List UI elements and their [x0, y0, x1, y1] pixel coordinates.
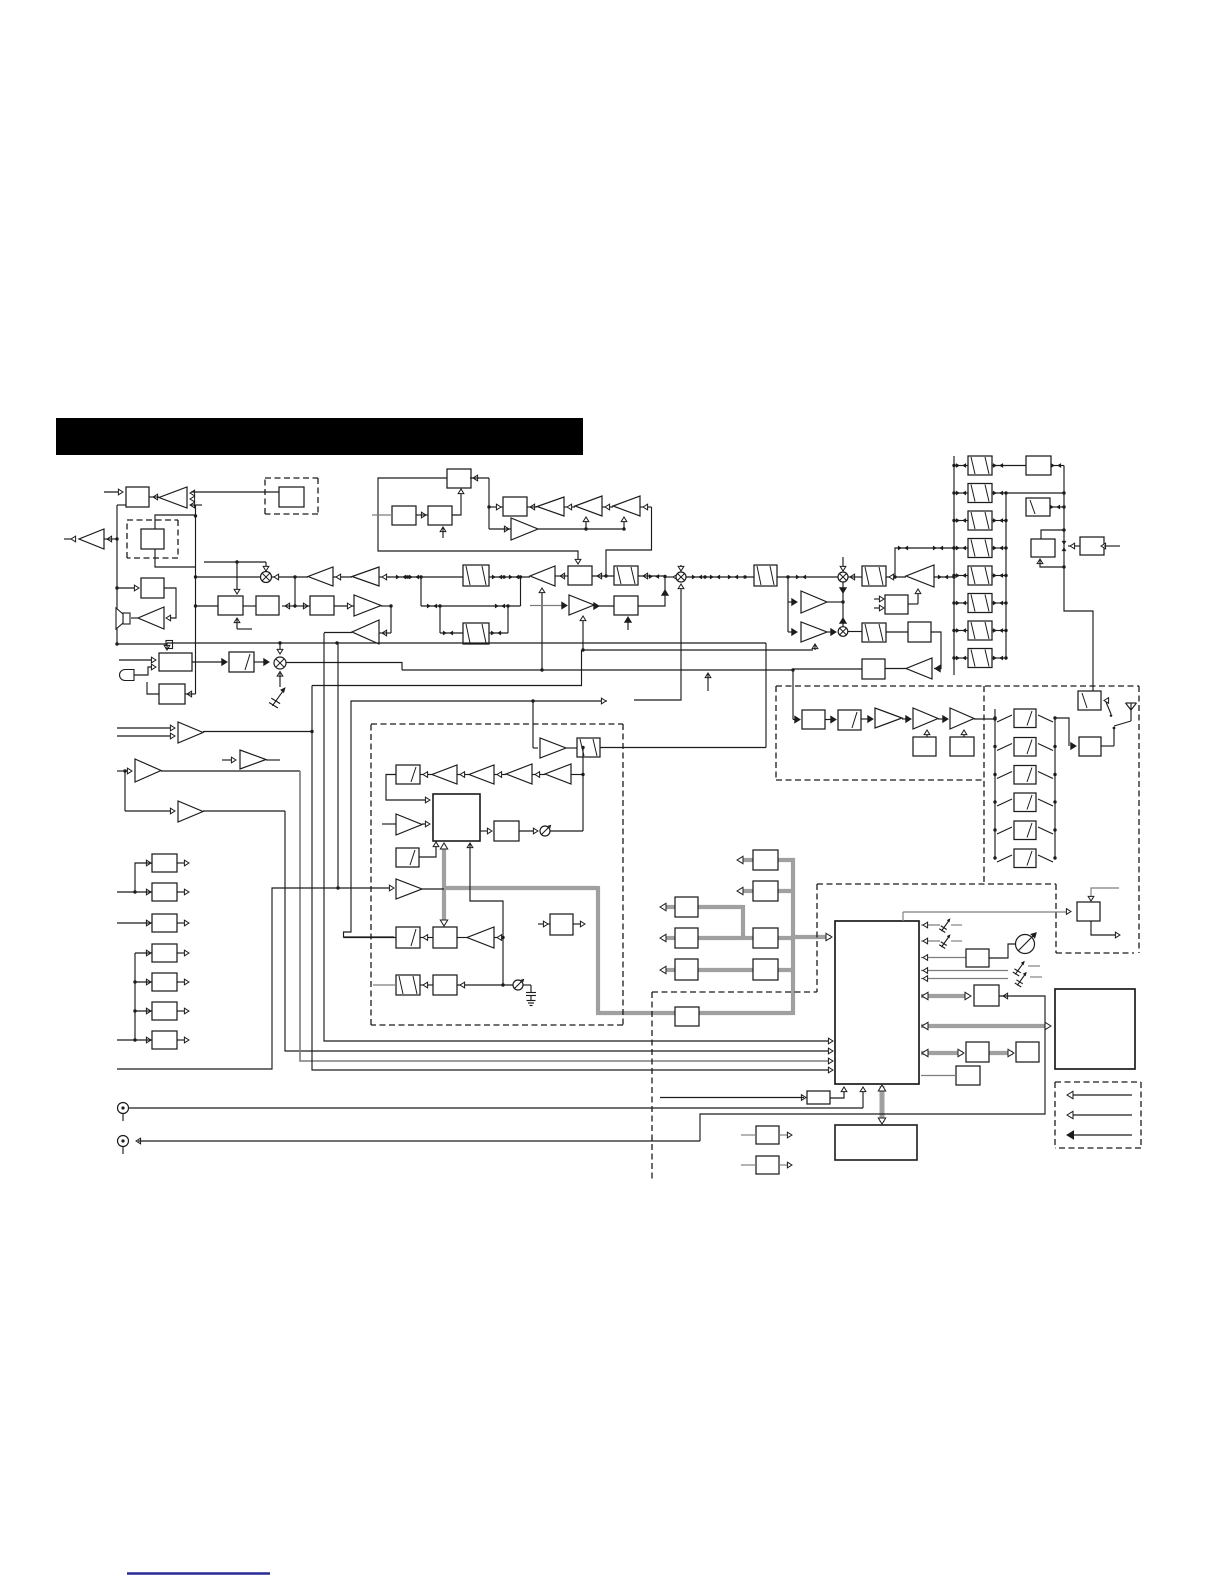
junction rail954 TR6: [952, 601, 955, 604]
junction y643 x337: [335, 641, 338, 644]
wire switch top jog: [1055, 718, 1069, 746]
arrow into SB1: [222, 659, 227, 665]
bus DSP D to E: [698, 936, 741, 940]
junction: [1004, 519, 1007, 522]
block limiter B1: [126, 487, 149, 507]
wire A15 in: [117, 770, 130, 772]
junction rail196 y516: [194, 514, 197, 517]
junction x542 y670: [540, 668, 543, 671]
filter FL12: [862, 623, 886, 642]
switch blade right SW6: [1038, 855, 1053, 862]
arrow A2 in: [107, 536, 112, 542]
junction: [1004, 656, 1007, 659]
wire input stub: [104, 491, 121, 493]
filter FL2: [463, 623, 489, 644]
wire A7 base: [379, 632, 391, 634]
rail1006 vertical: [1005, 493, 1007, 658]
amp A2 (left out): [79, 529, 104, 549]
arrow: [1067, 1131, 1074, 1139]
filter TR2: [968, 484, 992, 503]
amp A28 (right): [950, 708, 974, 729]
arrow: [580, 921, 585, 927]
wire A3 to speaker: [131, 617, 138, 619]
junction LB2: [133, 890, 136, 893]
arrow B10 out left: [560, 573, 565, 579]
block out LB3: [152, 914, 177, 932]
junction x895: [893, 575, 896, 578]
bus IC to key unit: [921, 1049, 964, 1056]
accessory line 2: [1069, 1114, 1132, 1116]
wire B36 in: [741, 1134, 756, 1136]
block out LB2: [152, 883, 177, 901]
arrow MIX5 top: [277, 649, 283, 654]
arrow into FL3 right: [643, 573, 648, 579]
mixer MIX5: [274, 657, 286, 669]
arrow into A9: [605, 504, 610, 510]
block B10: [568, 566, 592, 585]
arrow into MIX4: [831, 629, 836, 635]
arrow into J2: [136, 1138, 141, 1144]
bus DSP C to E: [698, 905, 753, 938]
wire FL11 to MIX3: [777, 576, 838, 578]
switch blade left SW3: [997, 772, 1012, 779]
block DSP B: [753, 881, 778, 901]
arrow: [1067, 1111, 1073, 1118]
PLL bottom control: [467, 843, 503, 985]
bus stub DSP D: [660, 934, 675, 941]
accessory line 1: [1069, 1094, 1132, 1096]
wire rail to TR7: [954, 630, 968, 632]
junction x665: [663, 575, 666, 578]
filter FL3: [614, 566, 638, 585]
arrow into B17: [460, 982, 465, 988]
arrow into B13 right: [187, 691, 192, 697]
arrow: [923, 938, 928, 944]
junction x583 y650: [581, 648, 584, 651]
block mic amp B12: [159, 653, 192, 671]
B29 top feed: [1091, 888, 1119, 901]
amp A5 (left): [352, 567, 379, 586]
amp A8 (left): [537, 497, 564, 516]
junction rail954 TR5: [952, 574, 955, 577]
bus stub DSP G right: [778, 968, 795, 972]
rail switch right: [1054, 718, 1056, 858]
amp chain A20 (left): [469, 765, 494, 784]
wire A30 out: [827, 601, 843, 603]
block IF B3: [218, 596, 243, 615]
wire MIX1 in right: [272, 576, 309, 578]
junction: [1062, 565, 1065, 568]
junction y577 x295: [293, 575, 296, 578]
wire into A11: [489, 528, 511, 530]
wire A18-FL4: [566, 747, 577, 749]
wire B4 link: [282, 605, 295, 607]
B29 out: [1091, 921, 1118, 935]
arrow into SB3: [1104, 698, 1109, 704]
ctl riser A10: [621, 517, 627, 529]
junction y562: [235, 560, 238, 563]
coupling pair TR6: [956, 601, 966, 606]
junction: [581, 773, 584, 776]
junction ctl1: [584, 527, 587, 530]
wire RSSI to IC (vertical x324): [324, 633, 831, 1041]
arrow: [535, 772, 540, 778]
junction x391: [389, 604, 392, 607]
junction x788: [786, 575, 789, 578]
dashed unit box D0a: [265, 478, 318, 514]
wire rail to TR1: [954, 465, 968, 467]
switch filter SW5: [1014, 821, 1036, 840]
arrow: [787, 1162, 792, 1168]
wire B7-B8: [416, 514, 428, 516]
amp chain A21 (left): [506, 764, 532, 784]
arrow: [497, 772, 502, 778]
switch filter SW4: [1014, 793, 1036, 812]
amp A25 (left): [467, 927, 494, 948]
block B26: [908, 622, 931, 642]
bus arrow top: [440, 843, 447, 849]
wire TR5 out: [992, 575, 1006, 577]
junction x606 y576: [604, 574, 607, 577]
wire A9-A10: [602, 506, 613, 508]
wire ant-sw drive: [903, 912, 1069, 921]
wire into B5: [295, 605, 310, 607]
amp A12 (right): [569, 595, 594, 615]
variable cap CV1: [1016, 932, 1037, 953]
junction y606 x295: [293, 604, 296, 607]
bus stub DSP E right: [778, 936, 795, 940]
capacitor C1 to ground: [523, 985, 536, 1006]
wire TR4 out: [992, 547, 1006, 549]
wire AF out 2 to IC (vertical x300): [161, 771, 831, 1061]
arrow LB2 out: [184, 889, 189, 895]
junction: [1004, 601, 1007, 604]
wire MIX1 out left: [196, 576, 260, 578]
junction: [506, 604, 509, 607]
wire xtal bottom: [155, 549, 196, 567]
filter FL11: [754, 565, 777, 586]
junction x954 y548: [952, 546, 955, 549]
filter FL7: [396, 927, 420, 948]
coupling pair: [409, 575, 419, 580]
arrow LB5 out: [184, 979, 189, 985]
ctl riser A9: [583, 517, 589, 529]
filter FL5: [396, 765, 420, 784]
wire A25 base: [494, 937, 503, 939]
wire A8-A9: [564, 506, 575, 508]
wire LO to MIX1: [204, 562, 266, 570]
junction rail-R SW6: [1053, 856, 1056, 859]
block drive B19: [913, 737, 936, 756]
switch filter SW1: [1014, 709, 1036, 728]
amp chain A22 (left): [545, 764, 571, 784]
amp A17 (right): [240, 750, 266, 769]
amp A18 (right, TX): [540, 738, 566, 758]
wire A14 in b: [117, 735, 172, 737]
block B24: [1080, 537, 1104, 555]
riser A31 control: [814, 645, 816, 650]
arrow into B10 top: [575, 559, 581, 564]
arrow into B6 bottom: [458, 489, 464, 494]
block B36: [756, 1126, 779, 1144]
junction LB7: [133, 1038, 136, 1041]
filter FL8: [396, 975, 420, 995]
wire A29 base: [934, 576, 954, 578]
arrow LB6 out: [184, 1008, 189, 1014]
junction: [1004, 491, 1007, 494]
junction ctl2: [622, 527, 625, 530]
junction x533 y701: [531, 699, 534, 702]
junction: [743, 575, 746, 578]
filter TR1: [968, 456, 992, 475]
wire FL5 to PLL: [386, 775, 428, 801]
arrow into A8: [567, 504, 572, 510]
junction: [1062, 528, 1065, 531]
arrow into MIX2: [673, 574, 678, 580]
junction rail-R SW1: [1053, 716, 1056, 719]
wire B37 out: [779, 1164, 790, 1166]
arrow into B6 right: [473, 475, 478, 481]
wire IC-B34: [921, 1075, 956, 1077]
wire filter2 drop left: [439, 606, 441, 633]
arrow into TX buffer box: [601, 698, 606, 704]
arrow into B21: [1071, 743, 1076, 749]
wire A21-A22: [532, 774, 545, 776]
amp A29 (left): [906, 565, 934, 587]
junction: [1062, 505, 1065, 508]
arrow LB4 out: [184, 950, 189, 956]
arrow into MIX1: [274, 574, 279, 580]
coupling pair: [492, 575, 502, 580]
wire B6 right: [470, 477, 489, 479]
block display unit U3: [1055, 989, 1135, 1069]
mixer MIX1: [261, 572, 272, 583]
bus DSP F to G: [698, 968, 753, 972]
block ant-sw drive B29: [1077, 902, 1100, 921]
wire into A12: [530, 605, 565, 607]
wire noise y670: [402, 669, 793, 671]
wire A26-A27: [902, 718, 910, 720]
filter FL4: [577, 738, 600, 757]
junction rail-L SW2: [993, 745, 996, 748]
antenna switch S1: [1101, 702, 1131, 746]
block out LB6: [152, 1002, 177, 1020]
B12 top arrow: [164, 643, 170, 650]
junction rail-L SW4: [993, 800, 996, 803]
wire filter2 row: [440, 632, 508, 634]
block out LB7: [152, 1031, 177, 1049]
wire rail to TR3: [954, 520, 968, 522]
stub: [1028, 965, 1040, 967]
wire LB4-7 feed: [117, 953, 152, 1040]
wire LB5 out: [177, 981, 187, 983]
switch filter SW3: [1014, 766, 1036, 785]
wire SB1 out: [254, 661, 268, 663]
arrow into A26: [868, 716, 873, 722]
block B14: [494, 821, 519, 841]
wire LB3 feed: [117, 922, 152, 924]
arrow into MIX5: [264, 659, 269, 665]
arrow B24 out: [1070, 543, 1075, 549]
filter TR5: [968, 566, 992, 585]
wire A20-A21: [494, 774, 506, 776]
wire FL3 right: [638, 575, 665, 577]
drop x788: [787, 577, 789, 632]
arrowpair: [993, 573, 1003, 578]
arrow into B9 right: [530, 504, 535, 510]
amp A32 (left): [906, 658, 932, 679]
trimmer line b: [921, 978, 1008, 980]
wire MIX5 out: [286, 663, 402, 671]
wire x651 feed: [606, 507, 652, 576]
arrow: [127, 768, 132, 774]
bus corner down: [596, 886, 600, 1013]
wire A4-A5: [333, 576, 352, 578]
stub FL8 left: [373, 984, 396, 986]
arrow up x665: [662, 590, 668, 595]
filter FL1: [463, 565, 489, 586]
wire B11 up to x665: [638, 577, 665, 606]
wire squelch y650: [583, 649, 813, 651]
wire B36 out: [779, 1134, 790, 1136]
wire discr to mod (vertical x338): [337, 643, 339, 888]
block B6: [447, 469, 471, 488]
arrow into MIX3: [850, 574, 855, 580]
trimmer T1: [939, 918, 950, 932]
bus stub DSP C: [660, 903, 675, 910]
wire B26 out: [931, 632, 941, 669]
amp A30 (right): [801, 591, 827, 613]
wire B9-A8: [527, 506, 537, 508]
wire drop x295: [294, 577, 296, 606]
block B37: [756, 1156, 779, 1174]
coupling pair TR8: [956, 656, 966, 661]
arrow: [460, 772, 465, 778]
junction: [438, 604, 441, 607]
arrow into B35: [801, 1095, 806, 1101]
bus IC bottom to audio box: [878, 1085, 885, 1124]
junction LB5: [133, 980, 136, 983]
wire A16 in: [125, 810, 172, 812]
wire into B9: [489, 506, 503, 508]
wire B17 right: [457, 984, 513, 986]
switch blade right SW2: [1038, 744, 1053, 751]
arrow into B3 top: [234, 589, 240, 594]
arrow into LB6: [146, 1008, 151, 1014]
block xtal (in dashed): [141, 529, 164, 549]
bus stub DSP B: [737, 887, 753, 894]
wire into B18: [793, 719, 795, 721]
block B25: [885, 595, 908, 614]
coupling pair TR1: [956, 463, 966, 468]
arrow A2 out: [71, 536, 76, 542]
wire AF out 1 to IC (vertical x312): [203, 686, 831, 1071]
switch blade right SW4: [1038, 799, 1053, 806]
junction: [581, 746, 584, 749]
arrow into FL10: [889, 574, 894, 580]
wire A17 in: [222, 759, 234, 761]
wire LB7 out: [177, 1039, 187, 1041]
dashed accessory box D7: [1055, 1082, 1141, 1148]
junction rail196 y606: [194, 604, 197, 607]
wire A27-A28: [938, 718, 947, 720]
wire A12-B11: [594, 605, 614, 607]
IC system control U2: [835, 921, 919, 1084]
wire A11 out: [538, 528, 624, 530]
wire MIX2 to FL11: [686, 576, 754, 578]
trimmer line a: [921, 970, 1008, 972]
bus stub DSP A right: [778, 858, 795, 862]
arrow into limiter: [118, 489, 123, 495]
junction x843 y602: [841, 600, 844, 603]
speaker SP1: [116, 608, 130, 629]
junction rail117 y644: [115, 642, 118, 645]
arrow LB3 out: [184, 920, 189, 926]
arrow into LB3: [146, 920, 151, 926]
junction rail954 TR4: [952, 546, 955, 549]
arrow: [879, 596, 884, 602]
block out LB1: [152, 854, 177, 872]
arrow into B11: [594, 603, 599, 609]
filter TR3: [968, 511, 992, 530]
switch blade right SW1: [1038, 715, 1053, 722]
arrow-up marker y670: [705, 673, 711, 691]
junction rail-L SW3: [993, 773, 996, 776]
block IF B4: [256, 596, 279, 615]
wire B25 out: [908, 603, 918, 605]
amp A11 (right): [511, 518, 538, 540]
arrow: [170, 725, 175, 731]
wire squelch gray y686: [312, 650, 582, 686]
block power B35: [807, 1091, 830, 1104]
MIX5 bottom arrow: [277, 672, 283, 688]
block B30: [966, 949, 989, 967]
bus stub DSP A: [737, 856, 753, 863]
block out LB4: [152, 944, 177, 962]
block final B20: [950, 737, 974, 756]
arrow into LB7: [146, 1037, 151, 1043]
A12 bottom control: [580, 616, 586, 650]
mixer MIX3: [838, 572, 848, 582]
block B9: [503, 497, 527, 516]
junction rail117 y588: [115, 586, 118, 589]
wire A6 out: [381, 605, 391, 607]
stub B24 right: [1104, 545, 1120, 547]
wire A32-B27: [885, 668, 906, 670]
arrow: [1067, 1091, 1073, 1098]
wire TX VCO line (vertical x351): [344, 701, 608, 937]
coupling pair: [933, 546, 943, 551]
block ref B16: [550, 914, 573, 935]
junction LB6: [133, 1009, 136, 1012]
B11 bottom stub: [625, 617, 631, 630]
coupling pair: [649, 574, 659, 579]
bus DSP to IC: [793, 935, 831, 939]
junction: [1062, 491, 1065, 494]
switch blade left SW2: [997, 744, 1012, 751]
coupling pair: [427, 604, 437, 609]
coupling pair: [938, 575, 948, 580]
wire to det box: [191, 491, 279, 493]
wire TR3 out: [992, 520, 1006, 522]
arrow: [787, 1132, 792, 1138]
coupling pair TR4: [956, 546, 966, 551]
arrow into A10: [643, 504, 648, 510]
wire PLL out: [480, 830, 490, 832]
wire rail196 to B3: [196, 605, 219, 607]
stub B13 left: [147, 682, 159, 694]
block B18: [802, 710, 825, 729]
